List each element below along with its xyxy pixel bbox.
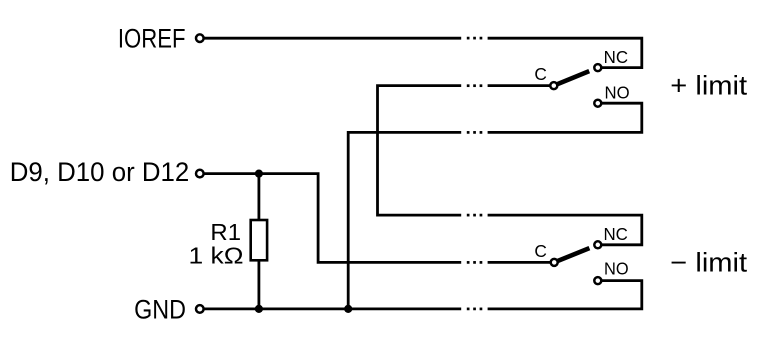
svg-text:C: C <box>534 64 547 84</box>
svg-text:D9, D10 or D12: D9, D10 or D12 <box>10 157 190 187</box>
svg-text:− limit: − limit <box>670 247 747 277</box>
svg-text:R1: R1 <box>210 219 241 245</box>
svg-text:GND: GND <box>134 295 186 325</box>
svg-text:IOREF: IOREF <box>118 24 186 54</box>
svg-text:+ limit: + limit <box>670 71 747 101</box>
svg-text:NC: NC <box>603 224 627 244</box>
svg-text:NO: NO <box>605 82 630 102</box>
svg-text:C: C <box>534 241 547 261</box>
svg-text:NO: NO <box>604 259 629 279</box>
svg-text:NC: NC <box>604 47 628 67</box>
svg-text:1 kΩ: 1 kΩ <box>189 243 244 269</box>
